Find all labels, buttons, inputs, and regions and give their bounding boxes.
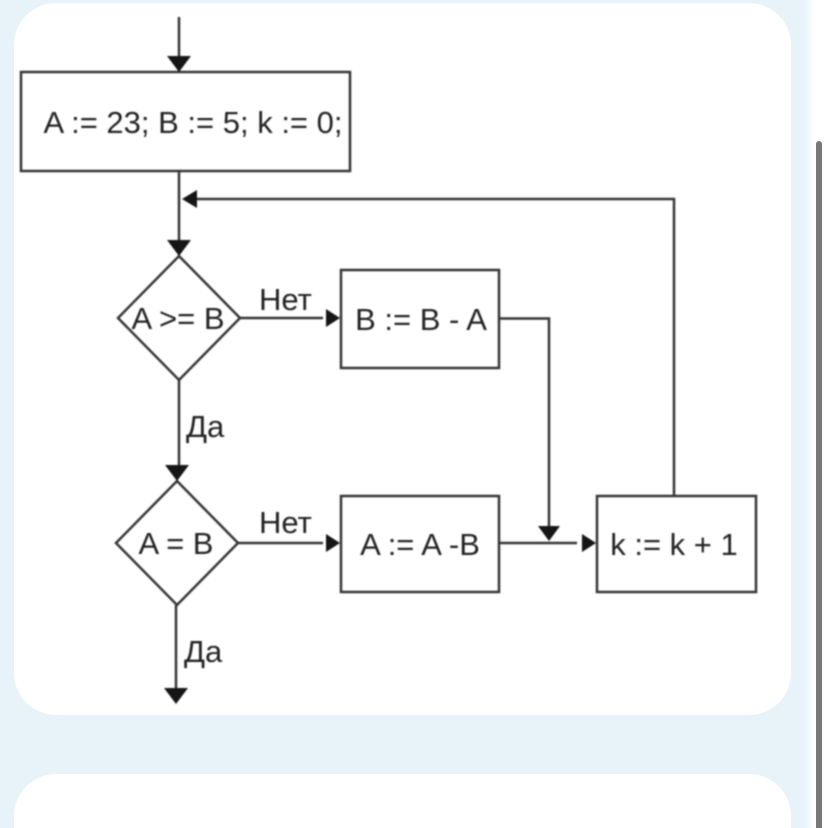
svg-text:Да: Да: [184, 634, 223, 669]
svg-text:k := k + 1: k := k + 1: [610, 527, 738, 562]
svg-text:Нет: Нет: [259, 505, 312, 540]
svg-text:Нет: Нет: [259, 282, 312, 317]
svg-text:B := B - A: B := B - A: [355, 302, 487, 337]
svg-text:A := A -B: A := A -B: [360, 527, 480, 562]
svg-text:A = B: A = B: [139, 526, 214, 561]
svg-text:A >= B: A >= B: [131, 301, 224, 336]
svg-text:A := 23; B := 5; k := 0;: A := 23; B := 5; k := 0;: [44, 105, 343, 140]
svg-text:Да: Да: [186, 409, 225, 444]
